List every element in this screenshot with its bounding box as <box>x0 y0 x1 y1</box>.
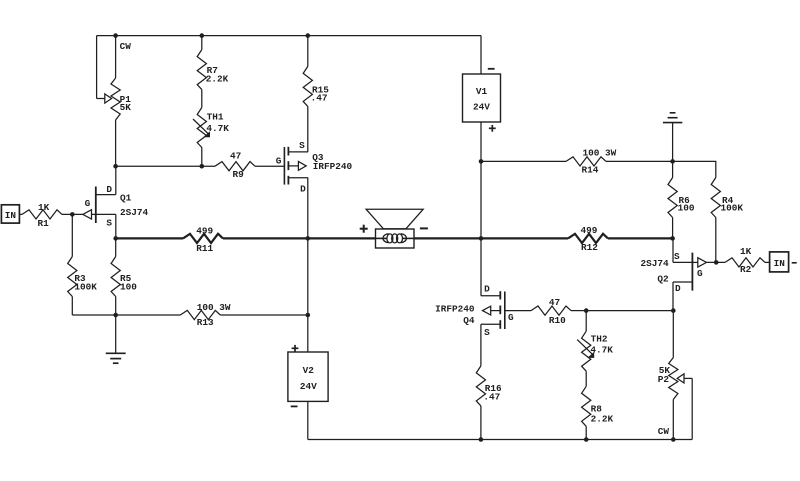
svg-text:4.7K: 4.7K <box>590 344 613 355</box>
svg-text:24V: 24V <box>300 381 317 392</box>
resistor R8 2.2K <box>582 371 614 439</box>
input terminal IN left <box>1 205 19 223</box>
wire V2 bottom to bottom rail <box>307 401 309 439</box>
wire R10 node to Q2 drain <box>586 310 673 312</box>
svg-text:R10: R10 <box>549 315 566 326</box>
wire R13 to V2 column <box>220 314 307 316</box>
svg-text:G: G <box>508 312 514 323</box>
wire P1 wiper left vertical <box>96 36 98 99</box>
resistor R12 499 <box>568 225 608 253</box>
node top rail / P1 junction <box>113 33 118 38</box>
speaker <box>360 209 428 248</box>
svg-text:100: 100 <box>120 281 137 292</box>
transistor Q4 IRFP240 <box>435 283 514 338</box>
svg-text:100 3W: 100 3W <box>583 148 617 159</box>
battery V2 24V <box>288 345 328 407</box>
wire bottom rail <box>308 439 692 441</box>
wire Q3 drain to center rail <box>307 178 309 239</box>
svg-text:S: S <box>106 218 112 229</box>
resistor R3 100K <box>68 214 98 315</box>
ground (top, inverted) <box>663 113 682 162</box>
svg-text:P2: P2 <box>658 374 670 385</box>
svg-text:CW: CW <box>120 41 132 52</box>
svg-text:V1: V1 <box>476 86 488 97</box>
svg-text:D: D <box>106 184 112 195</box>
thermistor TH2 <box>577 311 613 372</box>
svg-text:2.2K: 2.2K <box>206 73 229 84</box>
resistor R15 <box>303 36 329 152</box>
svg-text:47: 47 <box>230 150 241 161</box>
input terminal IN right <box>770 252 797 272</box>
svg-text:D: D <box>484 283 490 294</box>
svg-text:R11: R11 <box>196 243 213 254</box>
battery V1 24V <box>463 36 501 132</box>
svg-text:2.2K: 2.2K <box>591 414 614 425</box>
svg-text:Q1: Q1 <box>120 192 132 203</box>
resistor R14 100 3W <box>566 148 617 176</box>
node rail / V1 column <box>479 236 484 241</box>
wire Q2 gate to R4 node <box>707 261 726 263</box>
svg-text:IRFP240: IRFP240 <box>435 303 475 314</box>
svg-text:TH2: TH2 <box>591 334 608 345</box>
node TH1 bottom <box>200 164 205 169</box>
svg-text:499: 499 <box>581 225 598 236</box>
svg-text:499: 499 <box>196 225 213 236</box>
node R4 / Q2 gate <box>714 260 719 265</box>
potentiometer P1 <box>105 36 131 167</box>
ground (left) <box>106 315 126 363</box>
wire center output rail (bold) <box>116 237 183 239</box>
resistor R16 .47 <box>476 324 502 439</box>
node top rail / R7 junction <box>200 33 205 38</box>
wire V1 bottom to center rail <box>480 122 482 238</box>
wire Q1 drain up to node <box>115 166 117 194</box>
svg-text:S: S <box>674 251 680 262</box>
svg-text:47: 47 <box>549 297 560 308</box>
svg-text:Q4: Q4 <box>463 315 475 326</box>
thermistor TH1 <box>193 108 229 167</box>
node rail / V2 column <box>306 236 311 241</box>
wire V1/Q4 drain lead <box>480 238 482 295</box>
svg-text:.47: .47 <box>483 391 500 402</box>
wire node row P1/TH1/R9 <box>116 165 215 167</box>
wire R14 row left <box>481 160 566 162</box>
node ground column / R14 <box>670 159 675 164</box>
wire center rail mid (bold) <box>223 237 568 239</box>
node P1 bottom / Q1 drain <box>113 164 118 169</box>
svg-text:R2: R2 <box>740 264 752 275</box>
resistor R6 100 <box>668 161 695 238</box>
resistor R13 100 3W <box>180 302 231 328</box>
resistor R5 100 <box>111 238 137 315</box>
svg-text:1K: 1K <box>740 246 752 257</box>
node V2 column / R13 <box>306 313 311 318</box>
wire Q1 source down to rail <box>115 214 117 238</box>
svg-text:4.7K: 4.7K <box>206 123 229 134</box>
node TH2 top <box>584 308 589 313</box>
node R8 / bottom rail <box>584 437 589 442</box>
svg-text:2SJ74: 2SJ74 <box>640 258 669 269</box>
resistor R4 100K <box>711 178 743 263</box>
wire R13 row <box>72 314 180 316</box>
resistor R1 1K <box>19 202 82 229</box>
svg-text:Q2: Q2 <box>657 273 669 284</box>
transistor Q2 2SJ74 <box>640 251 706 294</box>
svg-text:R13: R13 <box>197 317 214 328</box>
potentiometer P2 <box>658 311 692 440</box>
wire R14 to ground column <box>606 160 673 162</box>
wire Q2 drain down to node <box>672 282 674 311</box>
svg-text:100K: 100K <box>721 203 744 214</box>
node R1 / R3 junction <box>70 212 75 217</box>
node top rail / R15 junction <box>306 33 311 38</box>
svg-text:24V: 24V <box>473 101 490 112</box>
wire V2 top lead <box>307 238 309 352</box>
svg-text:IRFP240: IRFP240 <box>313 161 353 172</box>
svg-text:D: D <box>675 283 681 294</box>
svg-text:S: S <box>299 140 305 151</box>
resistor R11 499 <box>183 225 223 254</box>
svg-text:R12: R12 <box>581 242 598 253</box>
svg-text:100: 100 <box>678 203 695 214</box>
svg-text:R1: R1 <box>38 218 50 229</box>
svg-text:CW: CW <box>658 426 670 437</box>
svg-text:V2: V2 <box>303 365 315 376</box>
node Q2 drain / P2 top <box>671 308 676 313</box>
svg-text:G: G <box>276 155 282 166</box>
node R16 / bottom rail <box>479 437 484 442</box>
svg-text:5K: 5K <box>120 102 132 113</box>
wire P1 wiper horizontal <box>97 98 106 100</box>
resistor R10 47 <box>505 297 586 326</box>
resistor R9 <box>215 150 255 180</box>
resistor R7 <box>197 36 228 108</box>
svg-text:D: D <box>300 183 306 194</box>
svg-text:100K: 100K <box>74 281 97 292</box>
svg-text:R14: R14 <box>582 164 599 175</box>
wire center rail right (bold) <box>608 237 673 239</box>
wire ground column to R4 corner <box>673 161 716 177</box>
node R5 / ground junction <box>113 313 118 318</box>
transistor Q1 2SJ74 <box>83 184 149 229</box>
svg-text:TH1: TH1 <box>207 112 224 123</box>
node rail / Q2 source <box>670 236 675 241</box>
svg-text:G: G <box>697 268 703 279</box>
svg-text:IN: IN <box>5 210 17 221</box>
svg-text:2SJ74: 2SJ74 <box>120 207 149 218</box>
svg-text:100 3W: 100 3W <box>197 302 231 313</box>
resistor R2 1K <box>725 246 770 275</box>
node V1 / R14 junction <box>479 159 484 164</box>
wire Q2 source to rail <box>672 238 674 262</box>
svg-text:1K: 1K <box>38 202 50 213</box>
node rail / Q1 source <box>113 236 118 241</box>
transistor Q3 IRFP240 <box>276 140 353 195</box>
wire top rail <box>97 35 481 37</box>
svg-text:R9: R9 <box>233 169 245 180</box>
node P2 / bottom rail <box>671 437 676 442</box>
svg-text:G: G <box>85 198 91 209</box>
wire R9 to Q3 gate <box>255 165 284 167</box>
svg-text:S: S <box>484 327 490 338</box>
svg-text:IN: IN <box>774 258 786 269</box>
svg-text:.47: .47 <box>311 92 328 103</box>
